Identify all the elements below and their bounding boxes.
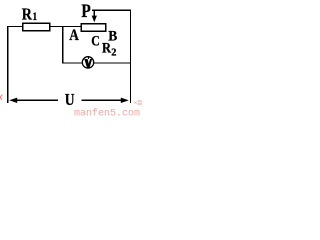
resistor R1 box [23, 23, 50, 31]
svg-text:A: A [69, 27, 79, 44]
svg-text:×目: ×目 [134, 99, 142, 106]
wire: right rail [130, 10, 131, 103]
svg-text:R: R [22, 5, 33, 24]
wire: left rail [7, 26, 8, 103]
svg-text:1: 1 [33, 9, 37, 23]
svg-text:manfen5.com: manfen5.com [74, 107, 140, 117]
wire: top horizontal from left rail to potentiometer A terminal [7, 26, 82, 27]
voltmeter V circle [82, 57, 93, 68]
wire: junction drop from top wire down to voltmeter branch [62, 26, 63, 64]
dimension line U: left segment [16, 100, 58, 101]
svg-text:C: C [91, 34, 100, 50]
svg-text:2: 2 [111, 47, 117, 59]
svg-text:R: R [102, 41, 111, 57]
wire: voltmeter branch horizontal to right rail [62, 62, 131, 63]
dimension line U: right segment [82, 100, 123, 101]
svg-text:✗: ✗ [0, 93, 4, 103]
wire: wiper to right rail [94, 10, 131, 11]
voltmeter needle tick [88, 56, 89, 59]
wiper arrow shaft [94, 10, 96, 17]
svg-text:U: U [65, 90, 75, 109]
dimension arrowhead right [121, 98, 129, 103]
voltmeter V letter [84, 59, 92, 68]
wiper arrowhead pointing down into pot [92, 16, 97, 23]
potentiometer P box [81, 24, 105, 32]
svg-text:P: P [81, 1, 91, 22]
dimension arrowhead left [9, 98, 17, 103]
wiper arrow shaft stub [92, 10, 95, 11]
